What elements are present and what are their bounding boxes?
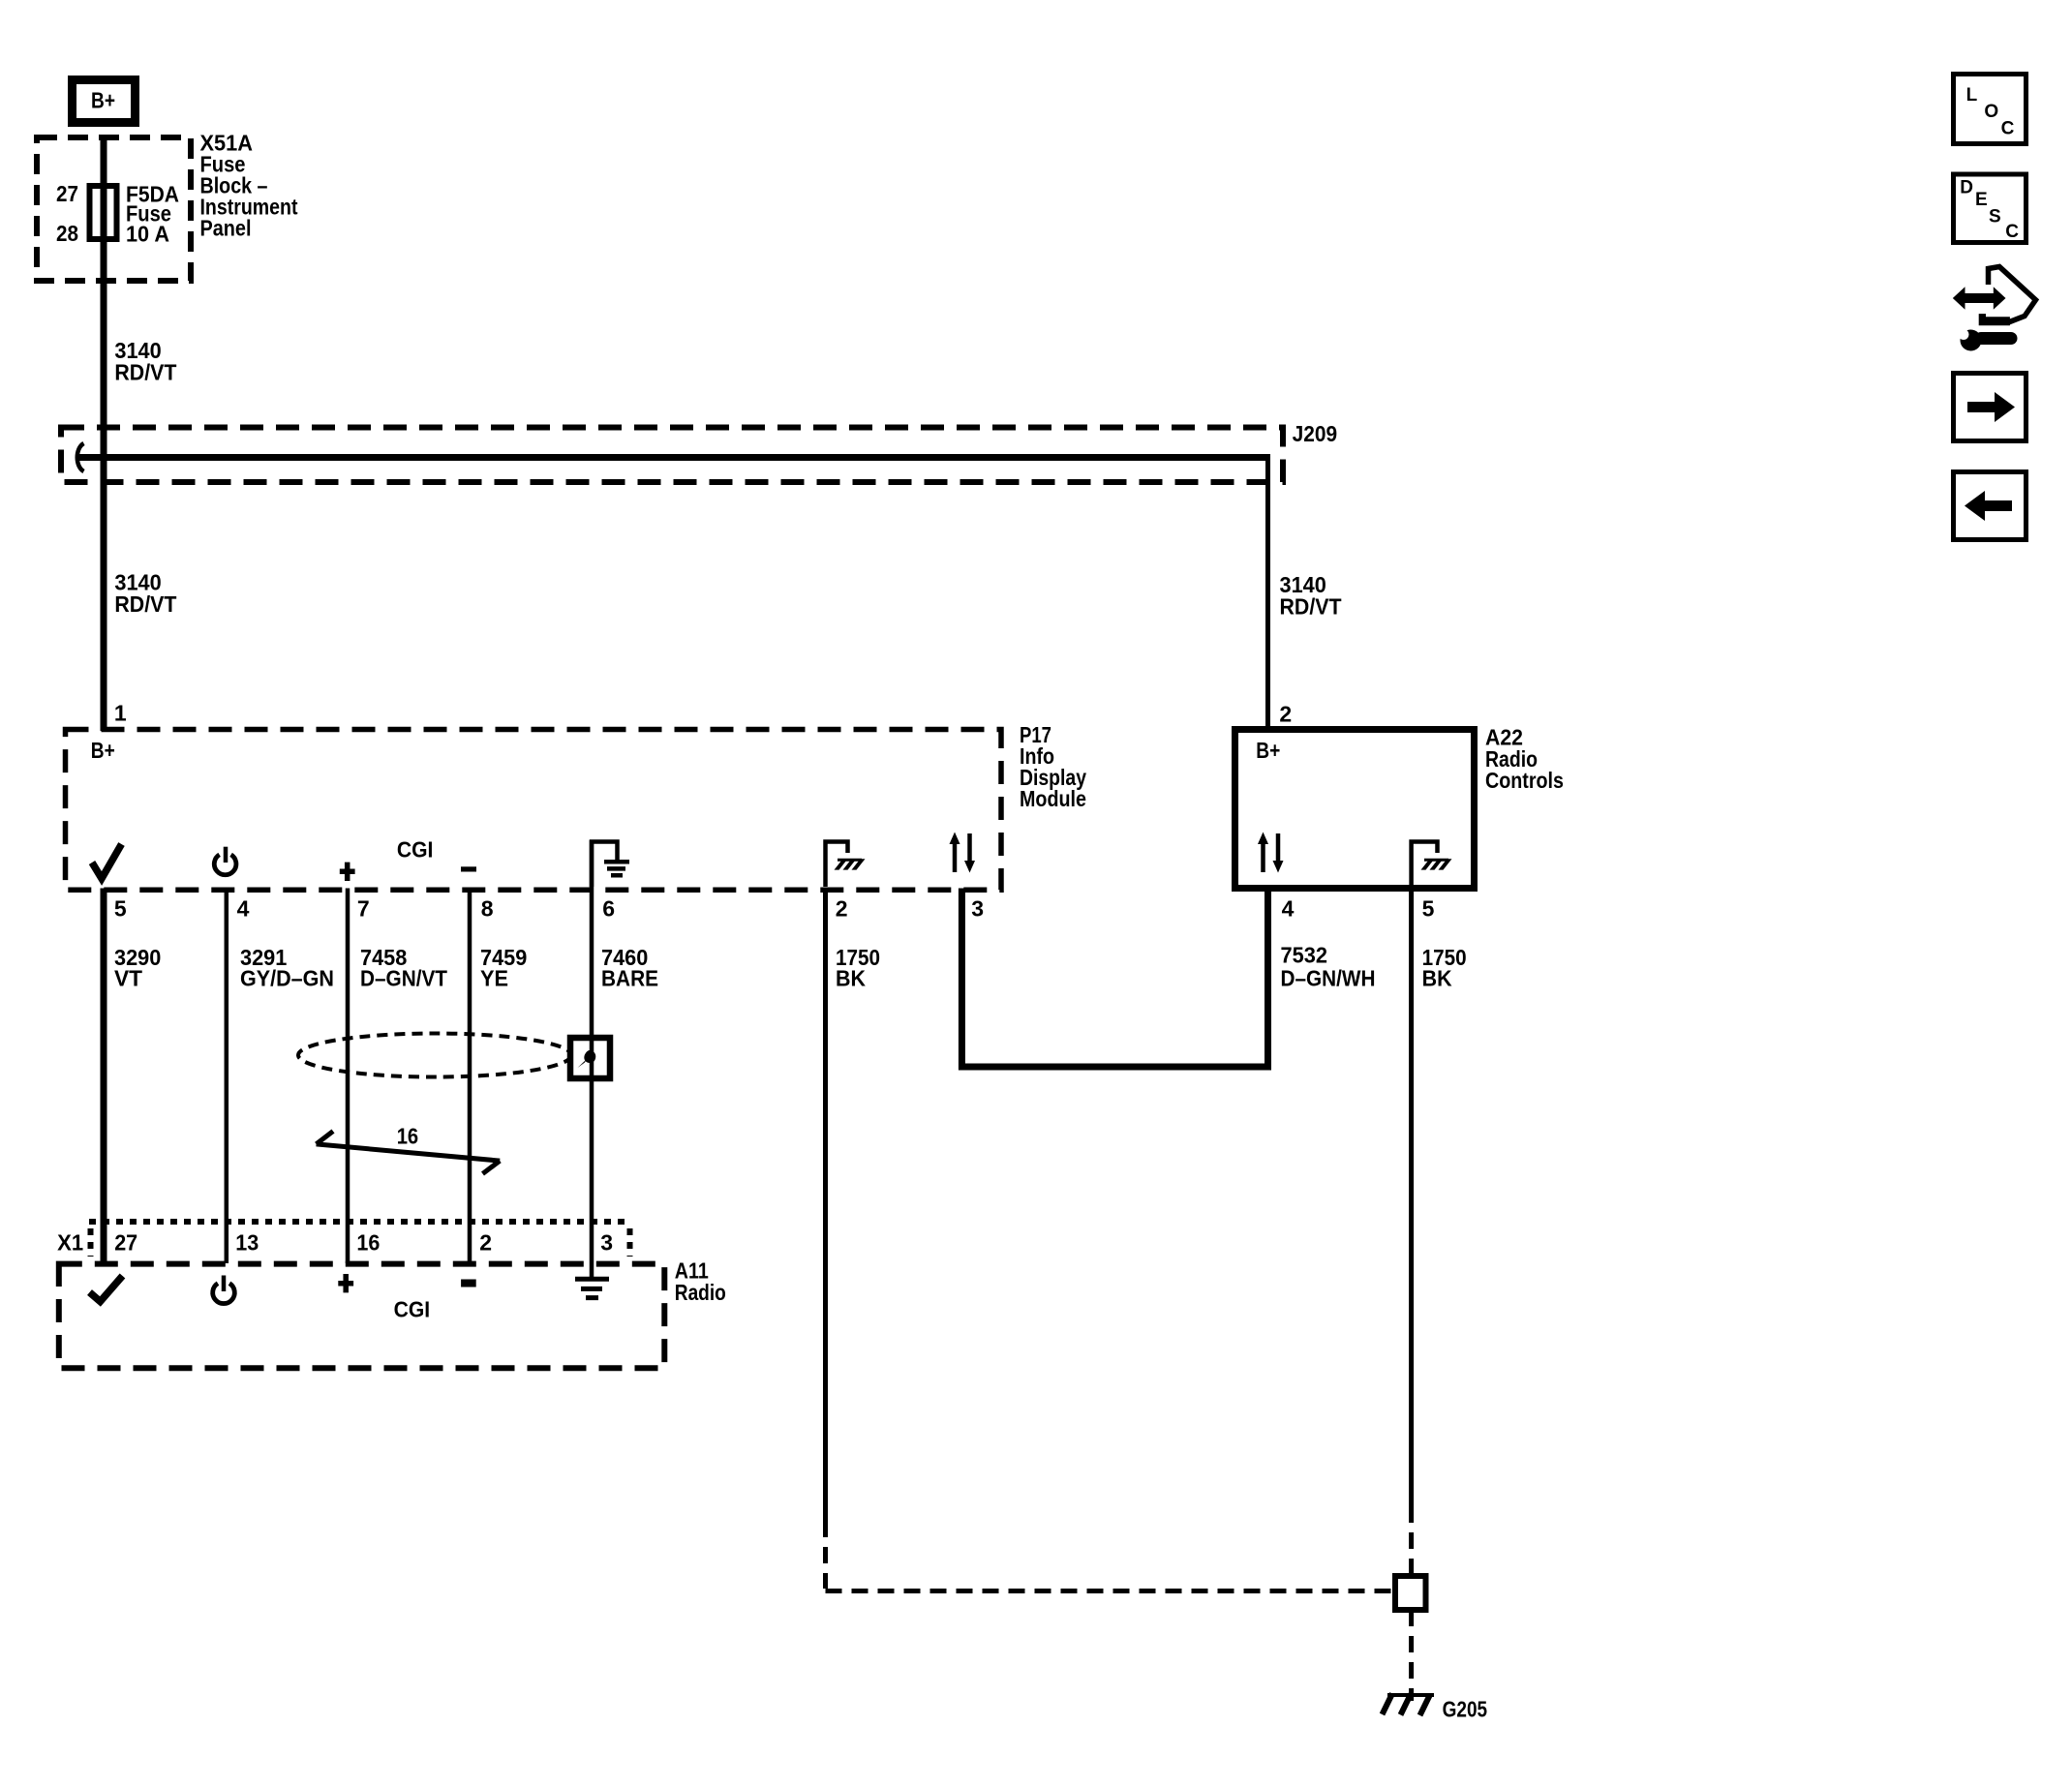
drain wire box bbox=[570, 1038, 610, 1078]
svg-text:D–GN/VT: D–GN/VT bbox=[360, 966, 447, 991]
P17 checkmark symbol bbox=[92, 844, 122, 879]
svg-text:RD/VT: RD/VT bbox=[1280, 594, 1342, 620]
wire 3290 VT bbox=[101, 889, 107, 1264]
icon DESC box bbox=[1954, 174, 2026, 243]
svg-text:1: 1 bbox=[114, 701, 127, 726]
wire 3291 GY/D-GN bbox=[225, 889, 229, 1264]
icon check/repair bbox=[1953, 267, 2036, 351]
wire 7459 YE bbox=[468, 889, 472, 1264]
svg-text:5: 5 bbox=[114, 896, 127, 922]
svg-text:5: 5 bbox=[1422, 896, 1435, 922]
svg-text:G205: G205 bbox=[1443, 1697, 1488, 1722]
svg-text:CGI: CGI bbox=[397, 837, 434, 863]
svg-text:J209: J209 bbox=[1293, 421, 1338, 446]
svg-text:4: 4 bbox=[237, 896, 250, 922]
wire 7460 BARE bbox=[590, 840, 594, 1277]
A11 checkmark symbol bbox=[90, 1276, 123, 1302]
svg-text:3: 3 bbox=[971, 896, 984, 922]
svg-text:O: O bbox=[1984, 102, 1998, 122]
svg-text:Controls: Controls bbox=[1485, 768, 1564, 793]
svg-text:6: 6 bbox=[602, 896, 615, 922]
svg-text:C: C bbox=[2005, 222, 2019, 242]
splice S-box bbox=[1395, 1576, 1426, 1610]
svg-text:BK: BK bbox=[1422, 966, 1452, 991]
wire: B+ feed 3140 down to P17 pin 1 bbox=[101, 138, 107, 731]
J209 pass-through connector dashed box bbox=[61, 428, 1283, 483]
P17 Info Display Module dashed box bbox=[66, 730, 1002, 891]
svg-text:2: 2 bbox=[1279, 702, 1292, 727]
wire 7458 D-GN/VT bbox=[346, 889, 350, 1264]
dashed wire to G205 bbox=[1409, 1610, 1414, 1701]
svg-text:VT: VT bbox=[114, 966, 142, 991]
svg-text:7532: 7532 bbox=[1281, 943, 1328, 968]
P17 minus symbol bbox=[461, 866, 476, 871]
P17 earth ground pin 6 bbox=[592, 842, 629, 888]
svg-text:GY/D–GN: GY/D–GN bbox=[240, 966, 334, 991]
svg-text:RD/VT: RD/VT bbox=[114, 591, 176, 617]
svg-text:Radio: Radio bbox=[675, 1280, 726, 1305]
svg-text:13: 13 bbox=[235, 1229, 259, 1255]
shield ellipse (twisted pair) bbox=[298, 1034, 571, 1077]
fuse F5DA bbox=[90, 186, 117, 239]
svg-text:D–GN/WH: D–GN/WH bbox=[1281, 965, 1376, 990]
svg-text:Module: Module bbox=[1020, 786, 1086, 811]
svg-text:10 A: 10 A bbox=[126, 222, 169, 247]
svg-text:E: E bbox=[1975, 190, 1988, 210]
fuse block X51A dashed box bbox=[37, 137, 191, 281]
ground G205 bbox=[1383, 1694, 1435, 1716]
svg-text:C: C bbox=[2001, 118, 2015, 138]
icon back arrow box bbox=[1954, 472, 2026, 540]
wire 1750 BK from A22 pin 5 bbox=[1409, 889, 1414, 1507]
svg-text:Panel: Panel bbox=[200, 216, 252, 241]
svg-text:B+: B+ bbox=[91, 88, 115, 113]
16-way loom arrow bbox=[317, 1132, 501, 1174]
P17 serial data arrows pin 3 bbox=[950, 833, 976, 873]
wire P17 pin3 to A22 pin4 7532 bbox=[961, 889, 1267, 1068]
A11 plus symbol bbox=[338, 1274, 353, 1292]
svg-text:X1: X1 bbox=[57, 1229, 83, 1255]
svg-text:2: 2 bbox=[479, 1229, 492, 1255]
svg-text:16: 16 bbox=[356, 1229, 380, 1255]
svg-text:27: 27 bbox=[56, 181, 78, 206]
svg-text:16: 16 bbox=[397, 1124, 419, 1149]
P17 power symbol bbox=[214, 847, 236, 875]
A11 earth ground pin 3 bbox=[575, 1279, 609, 1297]
svg-text:28: 28 bbox=[56, 221, 78, 246]
svg-text:3: 3 bbox=[600, 1229, 613, 1255]
svg-text:D: D bbox=[1960, 178, 1973, 198]
terminal hook at J209 bbox=[77, 443, 84, 471]
svg-text:CGI: CGI bbox=[394, 1297, 431, 1322]
svg-text:RD/VT: RD/VT bbox=[114, 360, 176, 385]
A22 Radio Controls box bbox=[1235, 730, 1475, 889]
A22 chassis ground pin 5 bbox=[1412, 842, 1452, 888]
svg-text:2: 2 bbox=[836, 896, 848, 922]
svg-text:8: 8 bbox=[481, 896, 494, 922]
A11 Radio dashed box bbox=[59, 1264, 665, 1369]
svg-text:B+: B+ bbox=[1256, 738, 1280, 763]
svg-text:BK: BK bbox=[836, 966, 866, 991]
A22 serial data arrows pin 4 bbox=[1258, 833, 1284, 873]
icon forward arrow box bbox=[1954, 374, 2026, 441]
A11 power symbol bbox=[213, 1276, 235, 1304]
A11 minus symbol bbox=[461, 1280, 476, 1287]
svg-text:YE: YE bbox=[480, 966, 508, 991]
svg-text:7: 7 bbox=[357, 896, 370, 922]
P17 plus symbol bbox=[340, 863, 355, 881]
svg-text:B+: B+ bbox=[91, 738, 115, 763]
svg-text:S: S bbox=[1989, 206, 2001, 227]
svg-text:BARE: BARE bbox=[601, 966, 658, 991]
svg-text:27: 27 bbox=[114, 1229, 137, 1255]
battery feed B+ symbol bbox=[73, 80, 136, 123]
svg-text:4: 4 bbox=[1282, 896, 1295, 922]
wire: J209 jumper to radio controls bbox=[77, 454, 1270, 461]
svg-text:L: L bbox=[1966, 85, 1978, 106]
wire 1750 BK from P17 pin 2 bbox=[823, 889, 828, 1522]
icon LOC box bbox=[1954, 75, 2026, 144]
P17 chassis ground pin 2 bbox=[826, 842, 866, 888]
X1 connector dotted row bbox=[89, 1219, 631, 1225]
